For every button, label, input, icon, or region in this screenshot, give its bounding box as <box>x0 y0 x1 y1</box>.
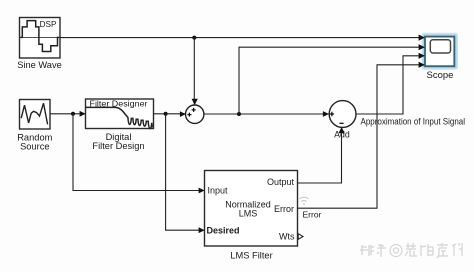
arrow into filter design input <box>80 111 86 117</box>
wire LMS Error to scope input 4 (net N7) <box>298 65 424 208</box>
block Digital Filter Design U3 <box>86 99 154 129</box>
wire filter-design to sum (net N3) <box>154 113 186 115</box>
arrow into sum top <box>192 99 198 105</box>
wire N2 branch to LMS Input <box>73 114 204 191</box>
arrow into sum left <box>180 111 186 117</box>
junction N4 <box>237 112 241 116</box>
block Sine Wave U1 <box>20 18 61 59</box>
svg-text:LMS Filter: LMS Filter <box>230 251 272 261</box>
svg-text:Source: Source <box>20 142 49 152</box>
svg-text:Filter Design: Filter Design <box>92 141 144 151</box>
arrow into scope input 4 <box>419 62 425 68</box>
svg-text:Input: Input <box>208 186 229 196</box>
arrow into LMS Desired <box>199 227 205 233</box>
arrow into Add bottom <box>339 127 345 133</box>
label Approximation of Input Signal <box>361 117 466 127</box>
arrow into scope input 2 <box>419 44 425 50</box>
svg-text:Sine Wave: Sine Wave <box>17 60 62 70</box>
wire N1 branch down to sum <box>193 38 195 104</box>
label LMS Filter <box>230 251 272 261</box>
svg-text:DSP: DSP <box>40 20 57 29</box>
port Wts output arrow (unconnected) <box>298 234 303 240</box>
label Sine Wave <box>17 60 62 70</box>
label Scope <box>427 70 454 81</box>
watermark zhihu 知乎 @越陌度阡 <box>360 244 386 257</box>
wire LMS Output to Add bottom (net N5) <box>298 128 342 183</box>
badge signal logging (wifi icon) on Error <box>300 197 309 205</box>
Add block S2 (circle, plus minus) <box>329 101 356 128</box>
label Digital Filter Design <box>92 132 144 151</box>
sum block S1 (circle, two plus) <box>186 105 204 123</box>
arrow into scope input 1 <box>419 35 425 41</box>
wire Add output to scope input 3 (net N6) <box>356 56 424 114</box>
block LMS Filter U4 <box>205 171 298 247</box>
arrow into LMS Input <box>199 188 205 194</box>
wire N4 branch to scope input 2 <box>239 47 424 114</box>
svg-text:Scope: Scope <box>427 70 454 81</box>
svg-text:Error: Error <box>274 204 294 214</box>
wire sum to Add (net N4) <box>204 113 329 115</box>
wire sine-to-scope (net N1) <box>60 37 424 39</box>
block Random Source U2 <box>20 100 51 130</box>
svg-text:Approximation of Input Signal: Approximation of Input Signal <box>361 117 466 127</box>
label Error signal name <box>303 210 322 220</box>
wire N3 branch to LMS Desired <box>166 114 204 230</box>
svg-text:Desired: Desired <box>207 226 240 236</box>
label Random Source <box>17 133 52 152</box>
svg-text:LMS: LMS <box>239 209 258 219</box>
junction N2 <box>71 112 75 116</box>
junction N3 <box>164 112 168 116</box>
wire random-source output (net N2) <box>50 113 85 115</box>
arrow into Add left <box>323 111 329 117</box>
block Scope U5 (selected) <box>422 34 457 69</box>
arrow into scope input 3 <box>419 53 425 59</box>
svg-text:Wts: Wts <box>279 231 295 241</box>
junction N1 <box>192 36 196 40</box>
svg-text:Output: Output <box>267 177 295 187</box>
svg-text:Error: Error <box>303 210 322 220</box>
label Add <box>334 129 350 139</box>
